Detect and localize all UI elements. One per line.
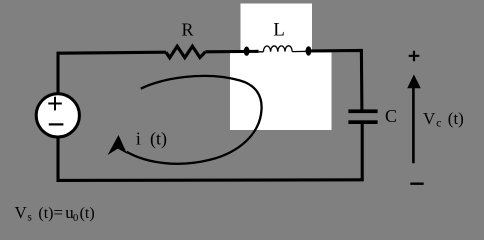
plus sign (capacitor polarity) (409, 51, 420, 62)
current loop wire i(t) (127, 76, 262, 164)
svg-text:=: = (53, 203, 63, 222)
current arrowhead (108, 135, 127, 155)
svg-text:c: c (436, 118, 441, 130)
voltage source circle (36, 94, 79, 137)
voltage source minus sign (49, 123, 64, 125)
inductor L thin leads (259, 50, 306, 52)
svg-text:(t): (t) (448, 109, 464, 128)
white panel (lower) (230, 53, 332, 131)
svg-text:V: V (15, 203, 28, 222)
capacitor C top plate (348, 109, 377, 113)
svg-text:(t): (t) (38, 205, 53, 222)
svg-text:s: s (27, 212, 32, 224)
svg-text:(t): (t) (150, 129, 167, 150)
wire: inductor to top-right corner down to capacitor (306, 50, 362, 109)
voltage source plus sign (48, 97, 62, 111)
svg-text:i: i (136, 129, 141, 149)
svg-text:R: R (182, 20, 194, 40)
node dot: inductor right terminal (306, 46, 312, 55)
wire: capacitor to bottom-right corner (361, 124, 364, 181)
svg-text:L: L (273, 19, 285, 40)
svg-text:(t): (t) (80, 205, 95, 222)
resistor R (166, 46, 205, 57)
Vc arrowhead (407, 75, 421, 89)
svg-text:0: 0 (73, 212, 79, 224)
Vc arrow shaft (412, 86, 415, 163)
capacitor C bottom plate (348, 120, 377, 124)
svg-text:V: V (423, 109, 436, 128)
wire: source top to top-left corner to resistor (58, 52, 166, 95)
node dot: inductor left terminal (244, 47, 250, 56)
svg-text:C: C (385, 106, 397, 126)
wire: resistor to inductor lead (205, 50, 258, 54)
white panel behind inductor (top) (241, 4, 313, 54)
inductor L coil (263, 46, 292, 52)
minus sign (capacitor polarity) (410, 182, 423, 184)
wire: source bottom, bottom rail (58, 137, 364, 180)
